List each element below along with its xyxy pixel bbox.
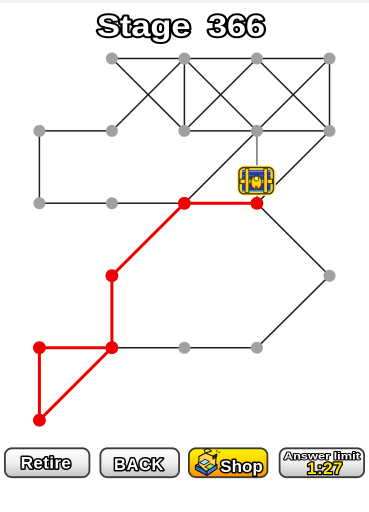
top light strip — [0, 0, 369, 3]
wire diagonal B — [112, 59, 184, 131]
wire vertical under chest — [256, 131, 258, 203]
wire row5 horizontal right — [184, 347, 257, 349]
black edges of graph — [39, 59, 329, 348]
wire red diagonal 2 — [39, 348, 112, 421]
wire diagonal C — [184, 59, 257, 131]
answer limit box — [280, 448, 365, 478]
node r1c4 — [324, 53, 336, 65]
wire row2 horizontal right — [257, 130, 330, 132]
node r4c4 — [324, 270, 336, 282]
node r3c1 — [106, 197, 118, 209]
wire diagonal A — [112, 59, 184, 131]
svg-text:Stage: Stage — [97, 10, 191, 43]
title "Stage 366" — [97, 10, 265, 43]
svg-text:Retire: Retire — [21, 454, 72, 473]
svg-text:1:27: 1:27 — [307, 459, 343, 478]
svg-text:366: 366 — [208, 10, 265, 43]
wire top row horizontal 3 — [257, 58, 330, 60]
wire vertical col0 — [38, 131, 40, 203]
button BACK — [100, 448, 179, 477]
node r2c2 — [178, 125, 190, 137]
wire row2 horizontal mid — [184, 130, 257, 132]
wire row3 horizontal mid — [112, 202, 184, 204]
node red r3c2 — [178, 197, 191, 210]
gray nodes — [33, 53, 335, 354]
node red r6c0 — [33, 414, 46, 427]
node r3c0 — [33, 197, 45, 209]
wire diagonal H — [257, 131, 330, 203]
node r2c0 — [33, 125, 45, 137]
svg-text:BACK: BACK — [114, 456, 164, 474]
wire red diagonal 1 — [112, 203, 184, 275]
svg-text:Shop: Shop — [220, 457, 263, 476]
node red r4c1 — [106, 269, 119, 282]
node red r5c0 — [33, 341, 46, 354]
wire row3 horizontal left — [39, 202, 112, 204]
wire red horizontal row3 — [184, 202, 257, 205]
wire red horizontal row5 — [39, 346, 112, 349]
wire diagonal E — [257, 59, 330, 131]
wire diagonal I — [257, 203, 330, 275]
button Retire — [5, 448, 90, 477]
treasure chest icon — [237, 165, 276, 196]
node r1c3 — [251, 53, 263, 65]
wire diagonal D — [184, 59, 257, 131]
wire top row horizontal 2 — [184, 58, 257, 60]
red nodes — [33, 197, 263, 427]
red traversed edges — [39, 203, 257, 420]
node r5c3 — [251, 342, 263, 354]
node r5c2 — [178, 342, 190, 354]
node red r3c3 — [251, 197, 264, 210]
node r2c1 — [106, 125, 118, 137]
node r1c2 — [178, 53, 190, 65]
wire row5 horizontal mid — [112, 347, 184, 349]
wire row2 horizontal left — [39, 130, 112, 132]
node r1c1 — [106, 53, 118, 65]
node r2c3 — [251, 125, 263, 137]
wire red vertical col1 — [110, 276, 113, 348]
wire vertical col4 — [329, 59, 331, 131]
wire vertical col2 — [183, 59, 185, 131]
node red r5c1 — [106, 341, 119, 354]
shop icon cash register — [196, 449, 221, 476]
wire diagonal G — [184, 131, 257, 203]
wire top row horizontal 1 — [112, 58, 184, 60]
wire diagonal F — [257, 59, 330, 131]
node r2c4 — [324, 125, 336, 137]
button Shop — [189, 448, 268, 477]
wire diagonal J — [257, 276, 330, 348]
wire red vertical col0 — [38, 348, 41, 421]
